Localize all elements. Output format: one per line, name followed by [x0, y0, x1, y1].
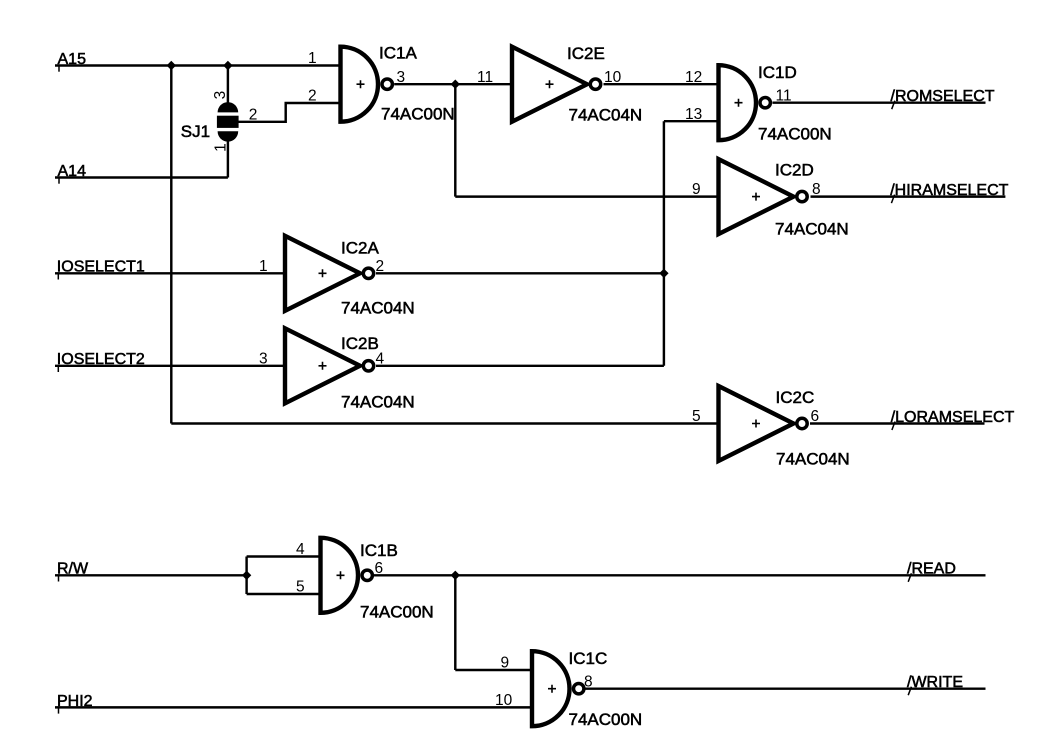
svg-text:A14: A14: [58, 163, 87, 180]
svg-text:3: 3: [259, 350, 268, 367]
svg-text:3: 3: [212, 91, 229, 100]
svg-text:11: 11: [776, 87, 792, 104]
svg-text:5: 5: [692, 408, 701, 425]
svg-text:R/W: R/W: [57, 561, 89, 578]
svg-text:74AC04N: 74AC04N: [775, 220, 849, 239]
svg-text:IC2A: IC2A: [341, 238, 379, 257]
svg-text:9: 9: [692, 181, 701, 198]
svg-text:8: 8: [812, 181, 821, 198]
svg-text:10: 10: [495, 692, 513, 709]
svg-text:74AC00N: 74AC00N: [758, 125, 832, 144]
svg-text:/ROMSELECT: /ROMSELECT: [891, 88, 995, 105]
svg-text:74AC04N: 74AC04N: [341, 299, 415, 318]
svg-text:10: 10: [604, 69, 622, 86]
svg-text:IC2C: IC2C: [776, 388, 815, 407]
svg-text:3: 3: [397, 69, 406, 86]
svg-text:74AC00N: 74AC00N: [569, 710, 643, 729]
svg-text:8: 8: [584, 673, 593, 690]
svg-text:2: 2: [249, 106, 258, 123]
svg-text:/HIRAMSELECT: /HIRAMSELECT: [890, 182, 1008, 199]
svg-text:4: 4: [296, 541, 305, 558]
svg-text:IC1D: IC1D: [758, 63, 797, 82]
svg-text:1: 1: [213, 143, 230, 152]
svg-text:6: 6: [811, 408, 820, 425]
svg-text:2: 2: [308, 88, 317, 105]
svg-text:4: 4: [376, 350, 385, 367]
svg-text:/READ: /READ: [907, 561, 956, 578]
svg-text:11: 11: [477, 69, 493, 86]
svg-text:74AC04N: 74AC04N: [569, 106, 643, 125]
svg-text:74AC00N: 74AC00N: [381, 105, 455, 124]
svg-text:74AC00N: 74AC00N: [360, 603, 434, 622]
svg-text:2: 2: [376, 258, 385, 275]
svg-text:IOSELECT1: IOSELECT1: [57, 259, 145, 276]
svg-text:IC2D: IC2D: [775, 161, 814, 180]
svg-text:1: 1: [308, 50, 317, 67]
svg-text:/WRITE: /WRITE: [907, 674, 963, 691]
svg-text:IC1C: IC1C: [569, 649, 608, 668]
svg-text:6: 6: [375, 560, 384, 577]
svg-text:A15: A15: [58, 51, 87, 68]
svg-text:/LORAMSELECT: /LORAMSELECT: [891, 409, 1015, 426]
svg-text:IC1B: IC1B: [360, 541, 398, 560]
svg-text:13: 13: [685, 106, 702, 123]
svg-text:SJ1: SJ1: [181, 122, 210, 141]
svg-text:PHI2: PHI2: [57, 693, 93, 710]
svg-text:9: 9: [501, 655, 510, 672]
svg-text:12: 12: [685, 69, 702, 86]
svg-text:1: 1: [259, 258, 268, 275]
svg-text:74AC04N: 74AC04N: [776, 450, 850, 469]
svg-text:IC2B: IC2B: [341, 334, 379, 353]
svg-text:5: 5: [296, 579, 305, 596]
svg-text:IOSELECT2: IOSELECT2: [57, 351, 145, 368]
svg-text:74AC04N: 74AC04N: [341, 393, 415, 412]
svg-text:IC2E: IC2E: [567, 44, 605, 63]
svg-text:IC1A: IC1A: [379, 44, 417, 63]
